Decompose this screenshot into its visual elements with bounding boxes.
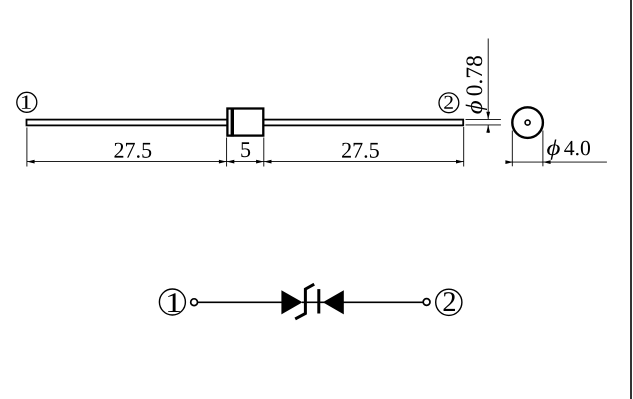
terminal label 1 circle (schematic) xyxy=(159,289,185,315)
extension line left lead end xyxy=(26,128,28,167)
dimension line 27.5 / 5 / 27.5 xyxy=(27,161,464,163)
lead end view circle xyxy=(512,107,543,138)
dimension text 5 xyxy=(241,142,250,157)
cathode band xyxy=(231,108,234,137)
arrowhead pointing down xyxy=(486,112,490,120)
terminal label 1 digit (top) xyxy=(22,96,31,109)
extension line body left xyxy=(226,138,228,167)
lead end view center dot xyxy=(525,120,530,125)
dimension text phi (4.0) xyxy=(547,139,560,159)
terminal label 2 circle (top) xyxy=(439,93,459,113)
right page border xyxy=(630,0,632,399)
arrowhead body-right pointing right xyxy=(256,160,264,164)
wire through symbol xyxy=(302,301,344,303)
right diode bar xyxy=(317,289,320,313)
arrowhead body-right pointing left xyxy=(264,160,272,164)
diode left triangle xyxy=(281,290,302,314)
terminal label 2 digit (schematic) xyxy=(444,292,455,311)
terminal label 2 circle (schematic) xyxy=(436,289,462,315)
extension line circle left xyxy=(511,131,513,167)
extension line right lead end xyxy=(463,127,465,167)
dimension line phi 0.78 lower xyxy=(487,125,489,133)
extension line lead top (phi 0.78) xyxy=(466,118,501,120)
dimension text phi 0.78 (rotated) xyxy=(466,56,487,114)
arrowhead pointing up xyxy=(486,125,490,133)
arrowhead pointing right at left extension xyxy=(505,160,513,164)
wire left xyxy=(198,301,282,303)
terminal node 2 open circle xyxy=(423,299,430,306)
arrowhead right end pointing right xyxy=(456,160,464,164)
extension line circle right xyxy=(542,131,544,167)
dimension text 27.5 left xyxy=(114,143,151,158)
lead wire left xyxy=(27,120,228,126)
arrowhead body-left pointing right xyxy=(219,160,227,164)
dimension line phi 4.0 xyxy=(506,161,607,163)
extension line body right xyxy=(263,138,265,167)
diode right triangle xyxy=(323,290,344,314)
dimension text 27.5 right xyxy=(342,143,379,158)
terminal label 1 digit (schematic) xyxy=(168,293,180,312)
diode body D1 xyxy=(227,109,263,136)
arrowhead left end pointing left xyxy=(27,160,35,164)
arrowhead pointing left at right extension xyxy=(543,160,551,164)
wire right xyxy=(344,301,423,303)
arrowhead body-left pointing left xyxy=(227,160,235,164)
extension line lead bottom (phi 0.78) xyxy=(466,124,501,126)
terminal node 1 open circle xyxy=(191,299,198,306)
terminal label 2 digit (top) xyxy=(444,96,453,109)
dimension line phi 0.78 upper xyxy=(487,39,489,120)
zener bar with hooks xyxy=(295,284,314,319)
terminal label 1 circle (top) xyxy=(17,92,37,112)
dimension text 4.0 xyxy=(564,141,590,156)
lead wire right xyxy=(263,120,464,126)
